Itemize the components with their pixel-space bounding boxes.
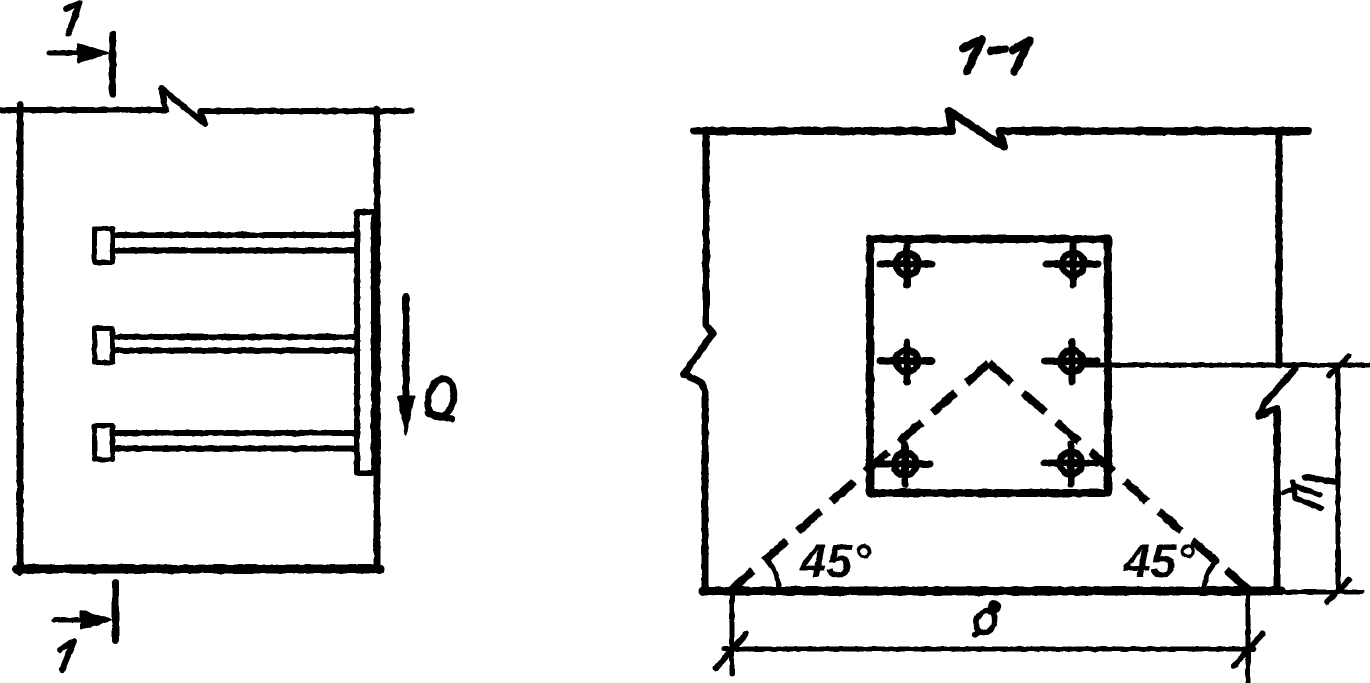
svg-text:45°: 45° [799,534,872,587]
svg-text:45°: 45° [1123,534,1196,587]
